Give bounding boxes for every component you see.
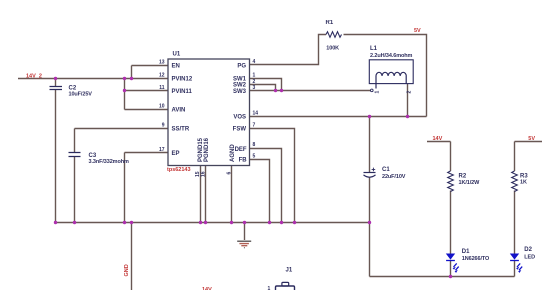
svg-text:10uF/25V: 10uF/25V (69, 92, 93, 98)
svg-text:3.3nF/332mohm: 3.3nF/332mohm (89, 159, 129, 165)
svg-text:1: 1 (374, 91, 380, 94)
svg-text:11: 11 (159, 85, 165, 91)
svg-text:PG: PG (237, 64, 246, 70)
svg-text:SW2: SW2 (233, 82, 247, 88)
svg-text:SS/TR: SS/TR (172, 127, 190, 133)
svg-text:AGND: AGND (230, 144, 236, 162)
svg-text:8: 8 (253, 142, 256, 148)
svg-text:1: 1 (253, 73, 256, 79)
svg-text:14V_2: 14V_2 (26, 74, 42, 80)
svg-text:1N6266/TO: 1N6266/TO (462, 256, 490, 262)
svg-text:GND: GND (124, 264, 130, 276)
svg-text:PGND16: PGND16 (204, 137, 210, 162)
svg-text:10: 10 (159, 104, 165, 110)
svg-text:13: 13 (159, 60, 165, 66)
svg-text:R1: R1 (326, 20, 334, 26)
svg-text:22uF/10V: 22uF/10V (382, 174, 406, 180)
svg-text:5: 5 (253, 154, 256, 160)
svg-text:DEF: DEF (235, 147, 247, 153)
svg-text:L1: L1 (370, 46, 378, 52)
svg-text:1K: 1K (520, 180, 527, 186)
svg-text:16: 16 (201, 171, 207, 177)
svg-text:6: 6 (227, 172, 233, 175)
svg-text:100K: 100K (326, 45, 339, 51)
svg-text:SW3: SW3 (233, 89, 247, 95)
svg-text:AVIN: AVIN (172, 108, 186, 114)
svg-text:1: 1 (268, 286, 271, 290)
svg-text:14: 14 (253, 111, 259, 117)
svg-text:LED: LED (524, 254, 535, 260)
svg-text:12: 12 (159, 73, 165, 79)
svg-text:PVIN12: PVIN12 (172, 77, 193, 83)
svg-text:EP: EP (172, 151, 180, 157)
svg-text:7: 7 (253, 123, 256, 129)
svg-text:U1: U1 (173, 52, 181, 58)
svg-text:PVIN11: PVIN11 (172, 89, 193, 95)
svg-text:D1: D1 (462, 249, 470, 255)
svg-text:4: 4 (253, 59, 256, 65)
svg-text:EN: EN (172, 64, 180, 70)
svg-text:J1: J1 (286, 268, 293, 274)
svg-text:1K/1/2W: 1K/1/2W (459, 180, 481, 186)
svg-text:5V: 5V (528, 136, 535, 142)
svg-text:D2: D2 (524, 247, 532, 253)
svg-text:2.2uH/34.6mohm: 2.2uH/34.6mohm (370, 53, 413, 59)
svg-text:2: 2 (407, 91, 413, 94)
svg-text:5V: 5V (414, 28, 421, 34)
svg-text:FB: FB (239, 158, 248, 164)
svg-text:C1: C1 (382, 167, 390, 173)
svg-text:9: 9 (162, 123, 165, 129)
svg-text:FSW: FSW (233, 127, 247, 133)
svg-text:R2: R2 (459, 174, 467, 180)
svg-text:3: 3 (253, 85, 256, 91)
svg-text:17: 17 (159, 147, 165, 153)
svg-text:VOS: VOS (233, 115, 246, 121)
svg-text:14V: 14V (433, 136, 443, 142)
svg-text:tps62143: tps62143 (167, 167, 191, 173)
